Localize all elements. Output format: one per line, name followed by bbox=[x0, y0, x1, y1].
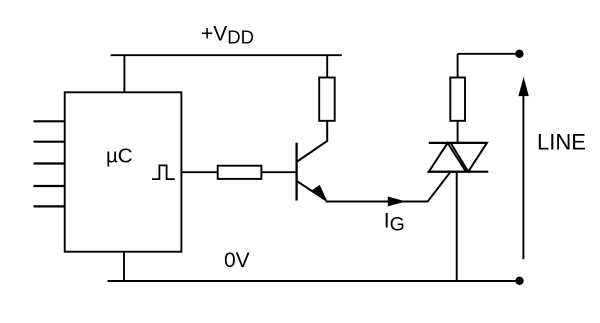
svg-text:LINE: LINE bbox=[537, 130, 586, 155]
LINE arrow shaft bbox=[522, 94, 524, 259]
svg-text:+VDD: +VDD bbox=[201, 23, 254, 48]
wire uC to 0V rail bbox=[123, 252, 125, 281]
svg-text:0V: 0V bbox=[224, 249, 250, 272]
wire VDD to uC bbox=[123, 55, 125, 92]
pin input 3 bbox=[34, 162, 65, 164]
triac T1 top bar bbox=[429, 142, 487, 144]
wire +VDD rail bbox=[111, 54, 342, 56]
microcontroller U1 box bbox=[65, 92, 182, 251]
transistor Q1 base bar bbox=[295, 143, 297, 201]
svg-text:IG: IG bbox=[384, 210, 405, 236]
pin input 1 bbox=[34, 120, 65, 122]
current arrow IG bbox=[388, 197, 406, 207]
resistor R3 bbox=[450, 78, 465, 121]
node line top junction dot bbox=[515, 50, 523, 58]
wire VDD rail to R2 bbox=[326, 55, 328, 77]
pin input 4 bbox=[34, 185, 65, 187]
wire gate path Q1 emitter to triac gate bbox=[326, 172, 451, 202]
triac T1 bottom bar bbox=[428, 171, 489, 173]
pin input 2 bbox=[34, 141, 65, 143]
pin input 5 bbox=[34, 205, 65, 207]
wire top right rail bbox=[458, 53, 520, 55]
transistor Q1 emitter arrowhead bbox=[311, 185, 328, 201]
resistor R2 bbox=[319, 78, 335, 121]
pulse symbol bbox=[152, 165, 175, 179]
node line bottom junction dot bbox=[515, 277, 523, 285]
wire R3 to line node bbox=[457, 54, 459, 78]
wire 0V rail bbox=[108, 280, 520, 282]
LINE arrowhead bbox=[518, 77, 528, 96]
resistor R1 bbox=[218, 166, 262, 179]
transistor Q1 emitter bbox=[297, 181, 326, 200]
wire R1 to Q1 base bbox=[261, 171, 296, 173]
svg-text:µC: µC bbox=[106, 145, 133, 168]
wire uC output to R1 bbox=[181, 171, 217, 173]
wire R3 to triac MT2 bbox=[457, 121, 459, 143]
transistor Q1 collector bbox=[297, 121, 327, 162]
wire triac MT1 to 0V rail bbox=[456, 172, 458, 281]
triac T1 up triangle bbox=[429, 143, 466, 172]
triac T1 down triangle bbox=[451, 143, 487, 172]
